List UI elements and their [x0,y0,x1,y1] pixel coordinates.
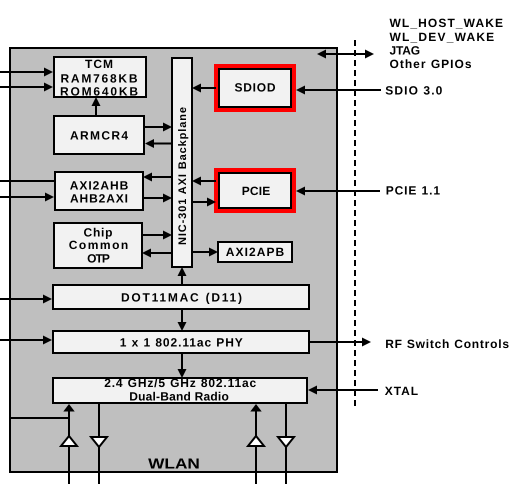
wire PHY down to Radio [178,353,187,378]
wire GPIO double arrow [317,50,374,59]
block DOT11MAC (D11) [53,285,309,309]
block 1x1 802.11ac PHY [53,331,309,353]
wire input arrow to DOT11MAC [0,295,52,304]
label PCIE 1.1 [386,184,441,198]
wire input line to AXI2AHB (no head) [0,180,55,182]
block Chip Common OTP [54,223,142,268]
svg-text:JTAG: JTAG [390,43,421,57]
wire PCIE 1.1 to PCIE [296,187,380,196]
svg-text:SDIO 3.0: SDIO 3.0 [385,84,442,98]
wire SDIO 3.0 to SDIOD [296,86,381,95]
wire DOT11MAC up to backplane [178,267,187,285]
svg-text:SDIOD: SDIOD [235,81,276,95]
svg-text:WL_DEV_WAKE: WL_DEV_WAKE [390,30,495,44]
wire input arrow to TCM (lower) [0,83,53,92]
svg-text:WLAN: WLAN [148,457,200,473]
wire AXI2AHB to backplane [143,194,172,203]
wire ARMCR4 to backplane [145,123,172,132]
svg-text:PCIE: PCIE [242,184,271,198]
svg-text:OTP: OTP [87,251,110,265]
label JTAG [390,43,421,57]
svg-text:Chip: Chip [84,225,113,239]
block AXI2APB [218,242,292,262]
wire backplane to PCIE [192,198,216,207]
svg-text:1 x 1 802.11ac PHY: 1 x 1 802.11ac PHY [120,336,243,350]
label Other GPIOs [390,57,472,71]
wire backplane to AXI2APB [192,248,218,257]
wire backplane to AXI2AHB [143,173,172,182]
wire DOT11MAC down to PHY [178,309,187,331]
svg-text:PCIE 1.1: PCIE 1.1 [386,184,441,198]
block SDIOD (red) [216,66,294,110]
svg-text:ROM640KB: ROM640KB [60,84,138,98]
svg-text:WL_HOST_WAKE: WL_HOST_WAKE [390,16,504,30]
block NIC-301 AXI Backplane [172,58,192,267]
svg-text:Other GPIOs: Other GPIOs [390,57,472,71]
wire input arrow to PHY [0,336,52,345]
svg-text:NIC-301 AXI Backplane: NIC-301 AXI Backplane [177,107,189,245]
label XTAL [385,384,418,398]
svg-text:2.4 GHz/5 GHz 802.11ac: 2.4 GHz/5 GHz 802.11ac [104,376,256,390]
dashed boundary line [354,40,356,408]
label RF Switch Controls [385,337,509,351]
wire RF Switch Controls from PHY [309,338,371,347]
wire antenna TX right (up into Radio) [248,404,264,484]
block TCM/RAM/ROM [54,57,146,98]
wire ARMCR4 up to TCM [92,97,101,116]
wire antenna TX left (up into Radio) [61,404,77,484]
wire XTAL to Radio [308,386,378,395]
svg-text:TCM: TCM [85,57,113,71]
svg-text:XTAL: XTAL [385,384,418,398]
wire Chip Common to backplane [142,231,172,240]
wire antenna RX right (down from Radio) [278,403,294,484]
svg-text:Dual-Band Radio: Dual-Band Radio [129,390,229,404]
wire backplane to Chip Common [142,249,172,258]
wire SDIOD to backplane [192,84,216,93]
wire stub from WLAN edge to TX line [10,417,69,419]
block PCIE (red) [216,170,294,211]
wire antenna RX left (down from Radio) [91,403,107,484]
block AXI2AHB/AHB2AXI [55,172,143,210]
wire PCIE to backplane [192,177,216,186]
WLAN core outline box [10,48,337,472]
block ARMCR4 [54,116,144,154]
wire input arrow to TCM (upper) [0,68,53,77]
wire input arrow to AXI2AHB [0,193,54,202]
label WL_DEV_WAKE [390,30,495,44]
svg-text:AXI2APB: AXI2APB [226,245,285,259]
wire backplane to ARMCR4 [145,139,172,148]
svg-text:RF Switch Controls: RF Switch Controls [385,337,509,351]
label WL_HOST_WAKE [390,16,504,30]
svg-text:AXI2AHB: AXI2AHB [70,178,129,192]
WLAN label [148,457,200,473]
block Dual-Band Radio [53,376,307,404]
svg-text:AHB2AXI: AHB2AXI [70,192,128,206]
svg-text:DOT11MAC (D11): DOT11MAC (D11) [121,291,242,305]
label SDIO 3.0 [385,84,442,98]
